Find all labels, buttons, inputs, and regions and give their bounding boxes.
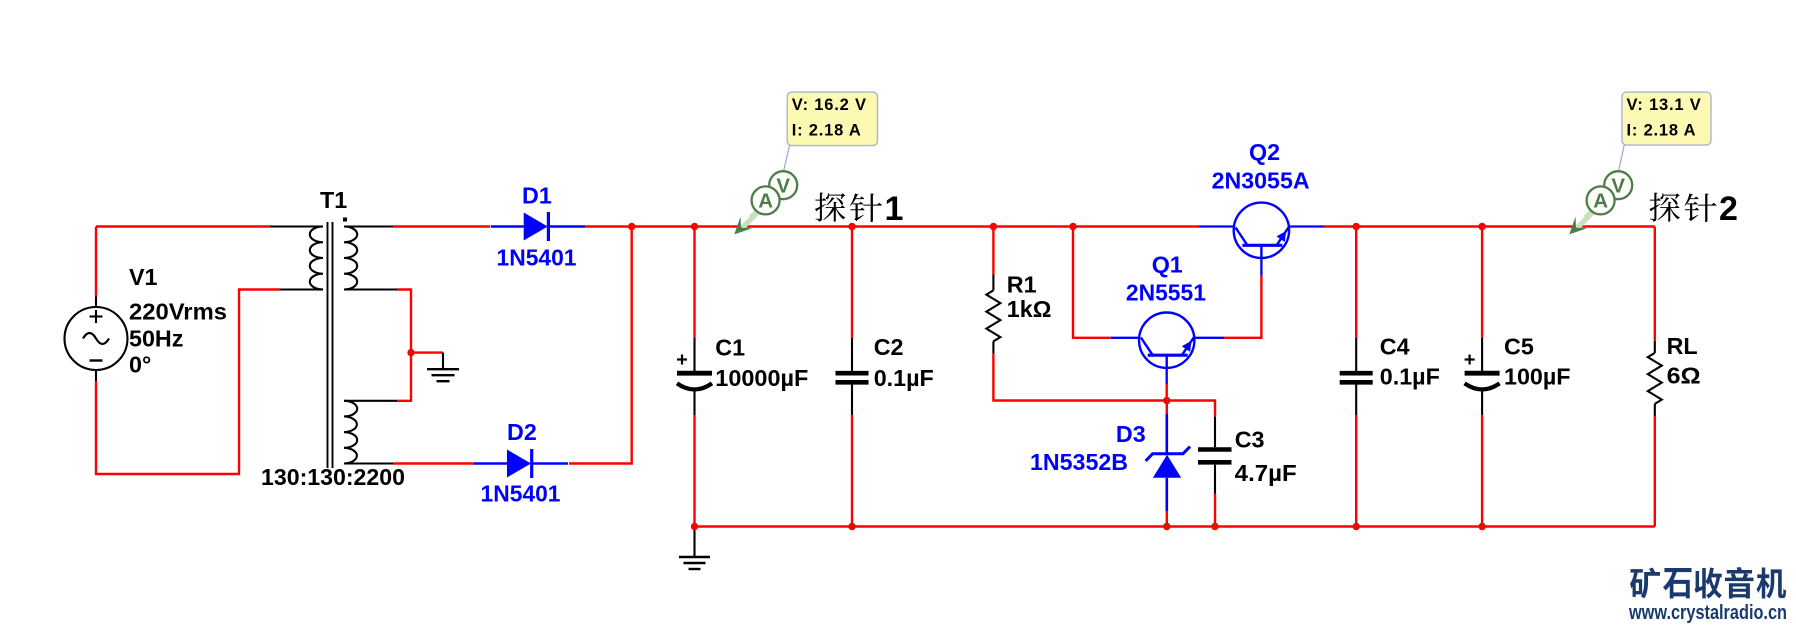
- svg-text:D1: D1: [522, 183, 552, 209]
- svg-text:C4: C4: [1380, 334, 1410, 360]
- node D2-D1 junction: [628, 223, 635, 230]
- wire: [992, 227, 994, 275]
- node C2 top: [848, 223, 855, 230]
- wire: [1214, 494, 1216, 527]
- svg-text:V1: V1: [129, 264, 158, 290]
- ground (main): [693, 527, 695, 557]
- wire: [1194, 337, 1224, 339]
- capacitor C2: [851, 338, 853, 371]
- wire: [1165, 384, 1167, 401]
- svg-text:www.crystalradio.cn: www.crystalradio.cn: [1628, 602, 1787, 624]
- svg-text:1N5401: 1N5401: [481, 481, 561, 507]
- node D3 bottom: [1163, 523, 1170, 530]
- node C5 top: [1478, 223, 1485, 230]
- wire: [851, 227, 853, 339]
- capacitor C1: [693, 338, 695, 371]
- probe leader line 2: [1619, 145, 1625, 171]
- svg-text:130:130:2200: 130:130:2200: [261, 464, 405, 490]
- svg-text:T1: T1: [320, 187, 347, 213]
- svg-text:50Hz: 50Hz: [129, 326, 183, 352]
- probe 探针1 (A/V): [742, 213, 758, 229]
- node R1-D3-C3: [1163, 397, 1170, 404]
- svg-text:0.1µF: 0.1µF: [1380, 364, 1440, 390]
- capacitor C3: [1214, 417, 1216, 447]
- svg-text:4.7µF: 4.7µF: [1235, 460, 1297, 486]
- node C3 bottom: [1211, 523, 1218, 530]
- wire: [1481, 415, 1483, 527]
- transistor Q2: [1234, 203, 1289, 258]
- svg-text:2: 2: [1719, 190, 1738, 228]
- probe leader line 1: [784, 146, 790, 171]
- svg-text:I: 2.18 A: I: 2.18 A: [792, 121, 862, 139]
- wire: [96, 290, 280, 475]
- svg-text:C2: C2: [874, 334, 904, 360]
- wire: [95, 227, 97, 297]
- wire: [96, 225, 270, 227]
- wire: [1481, 227, 1483, 339]
- node ground rail C1: [691, 523, 698, 530]
- svg-text:C5: C5: [1504, 334, 1534, 360]
- wire: [1260, 258, 1262, 275]
- transistor Q1: [1139, 313, 1194, 368]
- wire: [695, 525, 1655, 527]
- svg-text:1: 1: [885, 190, 904, 228]
- node C4 top: [1353, 223, 1360, 230]
- wire: [393, 225, 490, 227]
- probe callout V:16.2V I:2.18A: [787, 92, 877, 146]
- probe 探针2 (A/V): [1577, 213, 1593, 229]
- svg-text:2N5551: 2N5551: [1126, 280, 1206, 306]
- svg-text:1N5352B: 1N5352B: [1030, 449, 1128, 475]
- wire: [851, 415, 853, 527]
- label 探针2 (probe 2 name): [1649, 193, 1680, 222]
- wire: [1355, 227, 1357, 339]
- wire: [1224, 337, 1263, 339]
- wire: [411, 351, 443, 353]
- wire: [1289, 225, 1324, 227]
- wire: [1073, 227, 1111, 338]
- svg-text:A: A: [1593, 190, 1608, 213]
- wire: [693, 227, 695, 339]
- wire: [569, 227, 632, 464]
- zener diode D3: [1166, 414, 1169, 454]
- svg-text:Q1: Q1: [1152, 252, 1183, 278]
- ground (transformer center tap): [442, 353, 444, 369]
- wire: [1111, 337, 1139, 339]
- AC source V1: [95, 297, 97, 308]
- svg-text:Q2: Q2: [1249, 139, 1280, 165]
- svg-text:10000µF: 10000µF: [715, 365, 808, 391]
- wire: [1355, 415, 1357, 527]
- node R1 top: [990, 223, 997, 230]
- node center tap: [407, 349, 414, 356]
- wire: [397, 290, 411, 401]
- svg-text:RL: RL: [1667, 333, 1698, 359]
- svg-text:100µF: 100µF: [1504, 364, 1571, 390]
- label 探针1 (probe 1 name): [815, 193, 846, 222]
- wire: [1654, 227, 1656, 341]
- svg-text:0.1µF: 0.1µF: [874, 365, 934, 391]
- svg-text:1N5401: 1N5401: [497, 245, 577, 271]
- capacitor C5: [1481, 338, 1483, 371]
- node C2 bottom: [848, 523, 855, 530]
- svg-text:C3: C3: [1235, 426, 1265, 452]
- wire: [1166, 511, 1168, 527]
- wire: [584, 225, 1199, 227]
- svg-text:2N3055A: 2N3055A: [1212, 168, 1310, 194]
- resistor RL: [1654, 341, 1656, 353]
- svg-text:220Vrms: 220Vrms: [129, 299, 227, 325]
- node C4 bottom: [1353, 523, 1360, 530]
- wire: [393, 462, 475, 464]
- resistor R1: [992, 275, 994, 291]
- svg-text:D2: D2: [507, 419, 537, 445]
- wire: [1199, 225, 1234, 227]
- wire: [1654, 416, 1656, 527]
- svg-text:1kΩ: 1kΩ: [1007, 296, 1052, 322]
- node C5 bottom: [1478, 523, 1485, 530]
- svg-text:I: 2.18 A: I: 2.18 A: [1627, 121, 1697, 139]
- svg-text:A: A: [758, 190, 773, 213]
- diode D2: [474, 462, 507, 465]
- wire: [693, 415, 695, 527]
- svg-text:R1: R1: [1007, 272, 1037, 298]
- wire: [1167, 401, 1215, 417]
- watermark 矿石收音机 logo: [1630, 567, 1660, 598]
- capacitor C4: [1355, 338, 1357, 371]
- svg-text:D3: D3: [1116, 421, 1146, 447]
- node Q1 collector riser: [1069, 223, 1076, 230]
- node C1 top: [691, 223, 698, 230]
- svg-text:0°: 0°: [129, 352, 151, 378]
- wire: [993, 354, 1166, 401]
- wire: [1166, 368, 1168, 384]
- probe callout V:13.1V I:2.18A: [1622, 92, 1711, 145]
- svg-text:V: 13.1 V: V: 13.1 V: [1627, 96, 1702, 114]
- svg-text:C1: C1: [715, 334, 745, 360]
- wire: [1166, 401, 1168, 414]
- svg-text:V: 16.2 V: V: 16.2 V: [792, 96, 867, 114]
- wire: [1260, 275, 1262, 339]
- transformer T1: [270, 225, 316, 227]
- diode D1: [491, 225, 524, 228]
- svg-text:6Ω: 6Ω: [1667, 363, 1701, 389]
- wire: [1324, 225, 1655, 227]
